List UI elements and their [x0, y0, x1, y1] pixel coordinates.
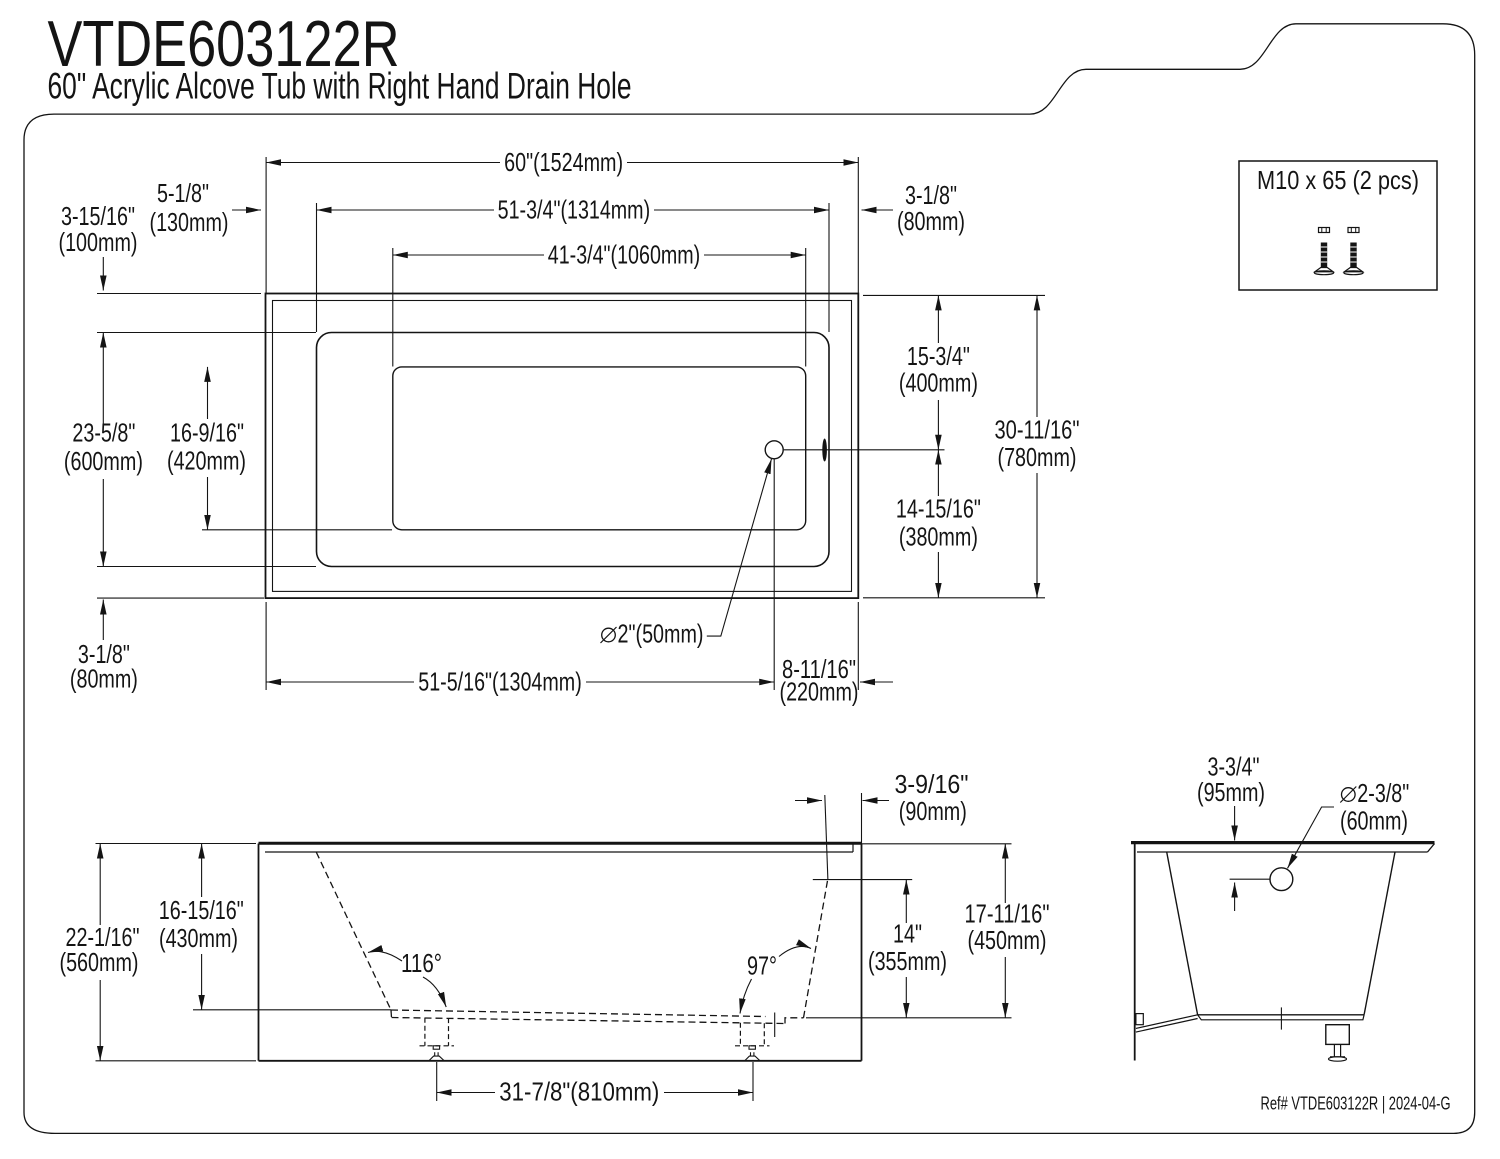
- ext bottom right: [863, 597, 1045, 599]
- rim inner line: [265, 851, 853, 853]
- svg-text:5-1/8": 5-1/8": [157, 178, 209, 208]
- rim end step: [852, 844, 854, 852]
- dim 3-3/4 up arrow: [1234, 883, 1236, 912]
- svg-text:17-11/16": 17-11/16": [965, 899, 1050, 929]
- dim 22-1/16: [99, 844, 101, 926]
- rim top extension right: [862, 843, 1012, 845]
- svg-text:(420mm): (420mm): [167, 446, 246, 476]
- right foot pad: [749, 1046, 755, 1049]
- svg-text:14-15/16": 14-15/16": [896, 494, 981, 524]
- bolt 2: [1344, 228, 1363, 275]
- apron left edge: [258, 844, 260, 1061]
- tub rim rounded rect: [317, 333, 830, 567]
- drain leader end view: [1288, 807, 1335, 868]
- svg-text:(450mm): (450mm): [968, 925, 1047, 955]
- dashed left wall: [316, 852, 391, 1010]
- deck right bevel: [1428, 844, 1435, 852]
- drain center line: [1230, 878, 1270, 880]
- ext top right: [863, 294, 1045, 296]
- svg-text:(780mm): (780mm): [998, 442, 1077, 472]
- svg-text:3-9/16": 3-9/16": [895, 769, 969, 799]
- foot pad: [1330, 1056, 1345, 1058]
- svg-text:14": 14": [893, 919, 922, 949]
- wall bracket: [1136, 1014, 1143, 1025]
- dim 3-15/16 outside arrow: [102, 257, 104, 291]
- dim 3-1/8 bottom left outside arrow: [102, 600, 104, 641]
- dashed right wall: [804, 880, 828, 1018]
- overflow mark: [822, 439, 827, 462]
- svg-text:2-3/8": 2-3/8": [1357, 778, 1409, 808]
- tilted wall extension: [825, 795, 828, 880]
- dashed floor bottom: [392, 1018, 786, 1024]
- svg-text:(430mm): (430mm): [159, 923, 238, 953]
- svg-text:31-7/8"(810mm): 31-7/8"(810mm): [499, 1077, 659, 1107]
- label dia 2-3/8: [1342, 788, 1356, 802]
- svg-text:97°: 97°: [747, 951, 777, 981]
- dim 3-9/16 arrows: [795, 800, 822, 802]
- svg-text:16-9/16": 16-9/16": [170, 418, 244, 448]
- svg-text:(80mm): (80mm): [70, 664, 138, 694]
- support stringer: [1136, 1015, 1198, 1032]
- ext side floor left: [193, 1009, 391, 1011]
- dim 5-1/8 outside arrow: [232, 209, 261, 211]
- dim 23-5/8: [102, 333, 104, 425]
- hardware box M10 x 65: [1239, 161, 1437, 290]
- svg-text:(60mm): (60mm): [1340, 806, 1408, 836]
- dim 14-15/16: [937, 450, 939, 496]
- tub bowl left wall: [1167, 852, 1198, 1015]
- dim 51-3/4: [317, 209, 495, 211]
- apron right edge: [861, 844, 863, 1061]
- drain hole: [765, 441, 783, 459]
- svg-text:16-15/16": 16-15/16": [159, 895, 244, 925]
- floor lip: [1198, 1015, 1365, 1020]
- deck inner line: [1137, 851, 1428, 853]
- svg-text:15-3/4": 15-3/4": [907, 341, 970, 371]
- drain center tick: [774, 1013, 776, 1038]
- dim 30-11/16: [1036, 295, 1038, 417]
- left foot pad: [433, 1046, 439, 1049]
- ext 41-3/4 left: [392, 248, 394, 367]
- dim 3-1/8 right outside arrow: [862, 209, 894, 211]
- ext 51-3/4 left: [316, 203, 318, 332]
- dim 16-9/16: [207, 367, 209, 419]
- svg-text:116°: 116°: [401, 948, 442, 978]
- dim 3-3/4 down arrow: [1234, 806, 1236, 841]
- rim top thick line: [259, 842, 862, 845]
- ext floor bottom left: [202, 529, 392, 531]
- label dia 2in: [602, 628, 616, 642]
- tub bowl floor: [1198, 1014, 1365, 1016]
- dim 17-11/16: [1004, 844, 1006, 904]
- svg-text:41-3/4"(1060mm): 41-3/4"(1060mm): [548, 240, 701, 270]
- drain centerline: [784, 449, 945, 451]
- svg-text:(90mm): (90mm): [899, 796, 967, 826]
- dim 41-3/4: [393, 254, 544, 256]
- svg-text:Ref# VTDE603122R | 2024-04-G: Ref# VTDE603122R | 2024-04-G: [1261, 1093, 1451, 1114]
- svg-text:(100mm): (100mm): [59, 227, 138, 257]
- bolt 1: [1314, 228, 1333, 275]
- svg-text:(80mm): (80mm): [897, 206, 965, 236]
- svg-text:23-5/8": 23-5/8": [72, 418, 135, 448]
- ext 60 right: [857, 157, 859, 293]
- ext 51-5/16 left below tub: [265, 602, 267, 690]
- foot bolt stem: [1334, 1044, 1340, 1056]
- angle 116 arrow to floor: [423, 977, 446, 1007]
- left foot channel: [420, 1018, 455, 1046]
- drain leader: [707, 459, 772, 636]
- drain hole end view: [1270, 868, 1293, 891]
- svg-text:2"(50mm): 2"(50mm): [618, 619, 704, 649]
- dim 51-5/16: [266, 681, 414, 683]
- dashed left wall foot join: [390, 1010, 393, 1018]
- deck top thick line: [1131, 841, 1435, 844]
- tub bowl right wall: [1364, 852, 1395, 1015]
- dim 31-7/8: [436, 1062, 438, 1101]
- dim 60in: [266, 162, 500, 164]
- ext rim bottom left: [97, 566, 316, 568]
- tub outer rect: [266, 294, 859, 599]
- svg-text:51-3/4"(1314mm): 51-3/4"(1314mm): [498, 195, 651, 225]
- svg-text:(355mm): (355mm): [868, 946, 947, 976]
- svg-text:(130mm): (130mm): [150, 207, 229, 237]
- ext 100mm: [97, 293, 261, 295]
- tub inner offset rect: [273, 301, 852, 592]
- dim 8-11/16 outside arrow: [860, 681, 893, 683]
- svg-text:(95mm): (95mm): [1197, 777, 1265, 807]
- drain vertical extension: [773, 459, 775, 690]
- svg-text:(400mm): (400mm): [899, 368, 978, 398]
- bottom level extension: [806, 1017, 1012, 1019]
- dim 15-3/4: [937, 295, 939, 343]
- water level line: [813, 879, 912, 881]
- alcove wall vertical: [1134, 844, 1136, 1061]
- ext 41-3/4 right: [805, 248, 807, 367]
- dim 16-15/16: [201, 844, 203, 898]
- svg-text:M10 x 65 (2 pcs): M10 x 65 (2 pcs): [1257, 165, 1419, 195]
- svg-text:60" Acrylic Alcove Tub with Ri: 60" Acrylic Alcove Tub with Right Hand D…: [48, 64, 632, 106]
- ext tub bottom left: [97, 597, 264, 599]
- foot block: [1326, 1025, 1350, 1045]
- dim 14in: [905, 880, 907, 923]
- svg-text:(560mm): (560mm): [60, 947, 139, 977]
- svg-text:30-11/16": 30-11/16": [995, 415, 1080, 445]
- dashed recess step: [785, 1018, 804, 1024]
- tub floor rounded rect: [393, 367, 806, 530]
- right edge extension up: [861, 793, 863, 844]
- ext side left top: [96, 843, 257, 845]
- ext 8-11/16 right below tub: [857, 602, 859, 690]
- svg-text:(600mm): (600mm): [64, 446, 143, 476]
- ext rim top left: [97, 332, 316, 334]
- angle 97 arrow to wall: [779, 946, 811, 956]
- svg-text:(220mm): (220mm): [780, 677, 859, 707]
- dashed floor top: [391, 1010, 766, 1017]
- angle 116 arrow to wall: [368, 951, 402, 961]
- floor centerline tick: [1280, 1007, 1282, 1029]
- svg-text:(380mm): (380mm): [899, 522, 978, 552]
- svg-text:60"(1524mm): 60"(1524mm): [504, 147, 623, 177]
- ext 51-3/4 right: [828, 203, 830, 332]
- right foot channel: [735, 1023, 770, 1046]
- ext 60 left: [265, 157, 267, 293]
- ext side left bottom: [96, 1060, 257, 1062]
- angle 97 arrow to floor: [740, 979, 752, 1014]
- apron bottom: [259, 1060, 862, 1062]
- svg-text:51-5/16"(1304mm): 51-5/16"(1304mm): [418, 667, 582, 697]
